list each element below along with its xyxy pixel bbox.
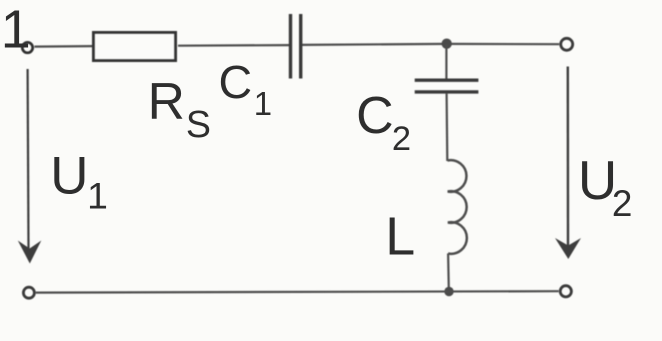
capacitor C2 (415, 80, 479, 92)
node: top junction (442, 39, 452, 49)
svg-text:1: 1 (254, 85, 272, 122)
svg-text:1: 1 (87, 175, 108, 217)
terminal: top-right (561, 38, 573, 50)
svg-text:2: 2 (392, 120, 411, 158)
wire: inductor to bottom junction (447, 254, 450, 290)
svg-text:C: C (219, 56, 253, 108)
svg-text:U: U (50, 146, 88, 205)
svg-text:C: C (356, 86, 393, 144)
inductor L (448, 160, 467, 254)
svg-text:S: S (186, 103, 211, 145)
wire: C2 to inductor (446, 94, 449, 161)
arrow U1 (line) (27, 69, 30, 249)
node: bottom junction (444, 287, 453, 296)
wire: resistor to C1 left plate (178, 44, 289, 47)
arrow U2 (line) (567, 67, 570, 247)
terminal: bottom-right (560, 286, 571, 297)
svg-text:1: 1 (1, 0, 31, 60)
svg-text:2: 2 (612, 183, 633, 224)
capacitor C1 (291, 14, 301, 79)
wire: junction down to C2 (445, 44, 447, 79)
svg-text:L: L (385, 207, 415, 267)
resistor RS (93, 32, 175, 60)
wire: top junction to top-right terminal (447, 43, 560, 45)
svg-text:R: R (148, 72, 185, 130)
wire top: terminal 1 to resistor (35, 45, 93, 48)
arrow U1 (head) (18, 241, 42, 264)
terminal: bottom-left (23, 287, 34, 298)
arrow U2 (head) (555, 238, 581, 259)
wire: C1 right plate to top junction (302, 44, 447, 45)
wire bottom (36, 291, 559, 292)
terminal: top-left (22, 42, 32, 52)
